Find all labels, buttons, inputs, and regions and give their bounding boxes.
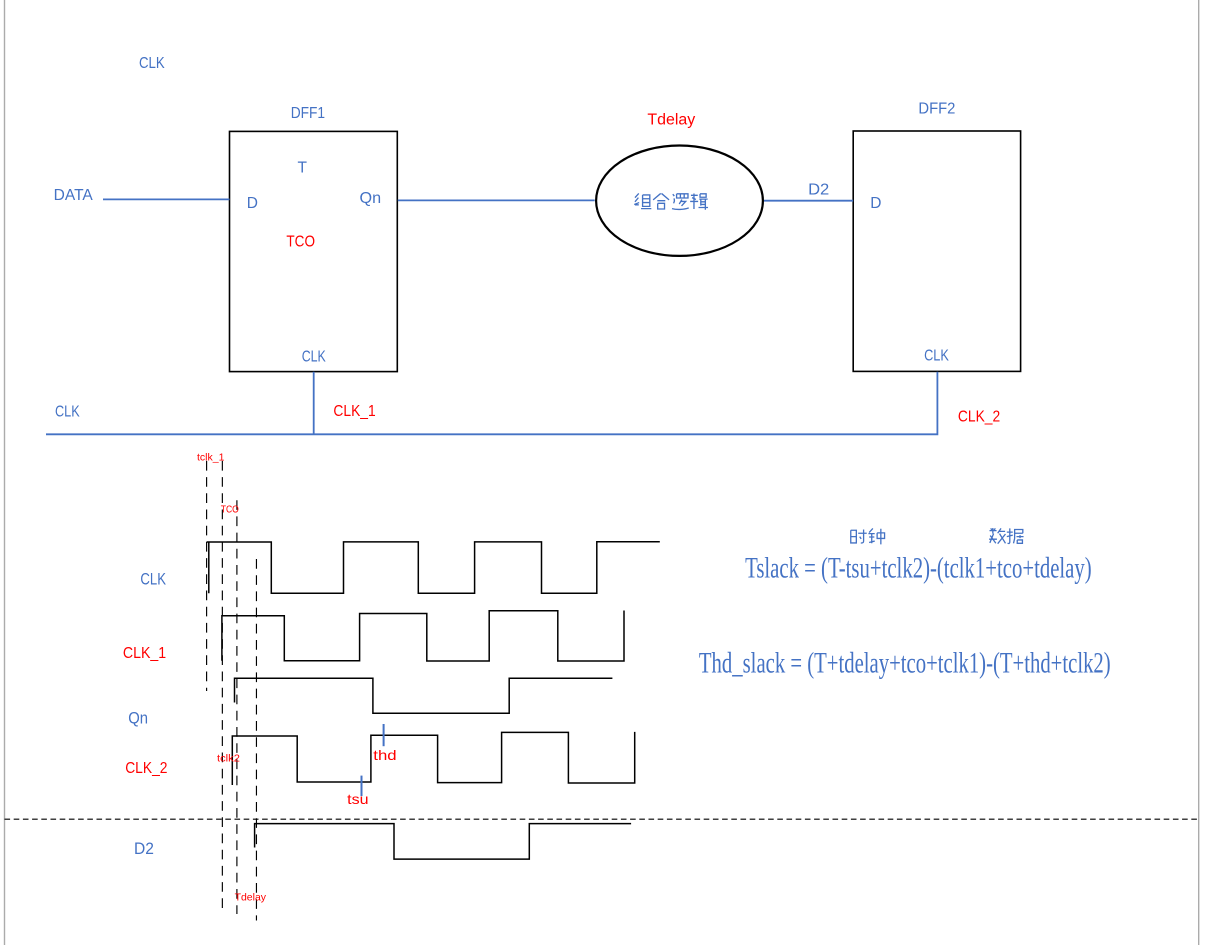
svg-text:CLK_1: CLK_1 (123, 645, 166, 662)
svg-text:Qn: Qn (360, 190, 382, 207)
svg-text:CLK: CLK (139, 55, 165, 72)
svg-text:TCO: TCO (221, 504, 239, 516)
svg-text:DATA: DATA (54, 187, 94, 204)
svg-text:Thd_slack = (T+tdelay+tco+tclk: Thd_slack = (T+tdelay+tco+tclk1)-(T+thd+… (699, 648, 1111, 680)
svg-text:D2: D2 (134, 840, 154, 858)
svg-text:tclk2: tclk2 (217, 753, 240, 765)
svg-text:Qn: Qn (128, 710, 148, 728)
svg-text:DFF2: DFF2 (918, 101, 955, 118)
svg-text:CLK: CLK (55, 404, 80, 421)
svg-text:tsu: tsu (347, 791, 368, 807)
svg-text:Tslack = (T-tsu+tclk2)-(tclk1+: Tslack = (T-tsu+tclk2)-(tclk1+tco+tdelay… (745, 553, 1092, 585)
svg-text:DFF1: DFF1 (291, 105, 325, 122)
svg-text:T: T (298, 160, 308, 177)
svg-text:thd: thd (373, 747, 396, 763)
svg-text:CLK: CLK (924, 348, 949, 365)
svg-text:CLK: CLK (140, 571, 166, 589)
svg-text:CLK_2: CLK_2 (958, 408, 1000, 425)
svg-text:Tdelay: Tdelay (235, 892, 267, 904)
svg-text:D: D (870, 195, 881, 212)
svg-text:D: D (247, 195, 258, 212)
svg-text:Tdelay: Tdelay (647, 112, 695, 129)
svg-text:D2: D2 (808, 181, 829, 198)
svg-text:CLK_2: CLK_2 (125, 760, 167, 777)
svg-text:tclk_1: tclk_1 (197, 452, 225, 464)
svg-text:CLK_1: CLK_1 (333, 403, 375, 420)
svg-text:TCO: TCO (286, 233, 315, 250)
svg-text:CLK: CLK (302, 349, 327, 366)
